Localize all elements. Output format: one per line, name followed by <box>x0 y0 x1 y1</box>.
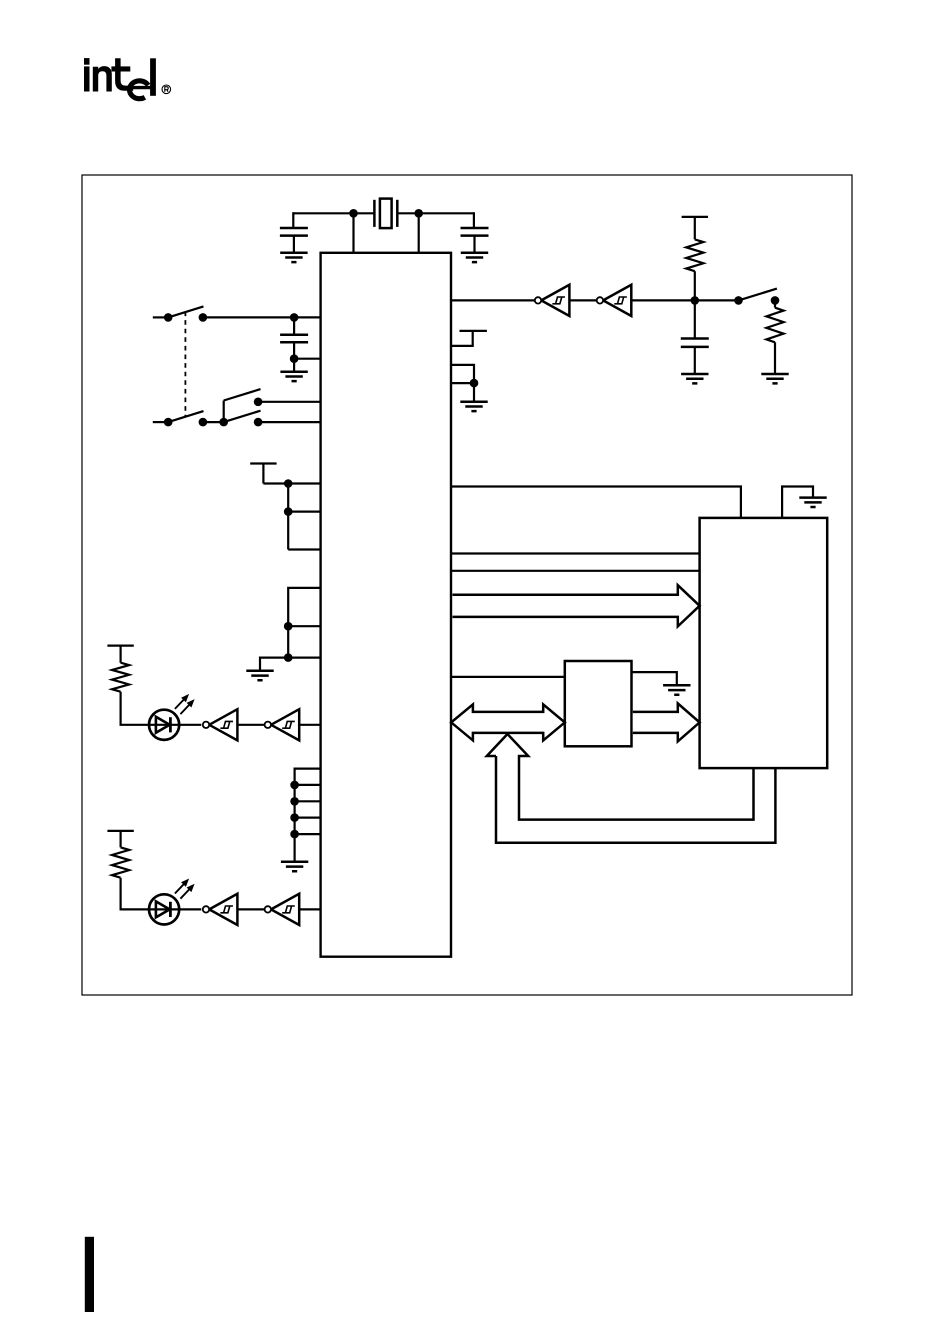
wire port strap top <box>295 769 321 862</box>
data bus arrow U1-U3 <box>451 704 565 740</box>
node S3 common <box>219 418 228 427</box>
gang link S1 dashed <box>184 312 186 417</box>
wire D1 to U5B <box>149 724 201 726</box>
wire C4 lead <box>694 300 696 338</box>
ground C1 <box>280 253 307 262</box>
schmitt inverter U6A <box>271 894 299 925</box>
wire S3 throw A to U1 <box>258 401 321 403</box>
wire strap bottom to U1 <box>288 548 320 550</box>
wire WR line <box>451 570 700 572</box>
wire S1B to S3 <box>203 421 224 423</box>
ground C4 <box>681 374 708 383</box>
wire C3 lead <box>293 317 295 334</box>
crystal Y1 <box>373 200 376 227</box>
wire port pin2 to U1 <box>295 800 321 802</box>
switch S2 arm <box>739 289 777 301</box>
wire U5A to U1 <box>299 724 320 726</box>
resistor R2 <box>766 308 783 343</box>
ground U3 <box>663 685 690 694</box>
wire C2 to ground <box>473 236 475 253</box>
wire D2 to U6B <box>149 908 201 910</box>
switch S1B arm <box>168 411 203 422</box>
node port pin3 <box>290 813 299 822</box>
schmitt inverter U6B <box>209 894 237 925</box>
resistor R4 <box>112 847 129 877</box>
wire XTAL2 right <box>397 212 474 214</box>
wire strap mid to U1 <box>288 511 320 513</box>
wire U4A to node RST <box>631 299 738 301</box>
power VCC U1 <box>460 330 487 332</box>
node S2 common <box>734 296 743 305</box>
wire C1 to ground <box>293 236 295 253</box>
node C3 bottom <box>290 354 299 363</box>
wire gnd strap top <box>288 588 320 658</box>
ground port strap <box>281 862 308 871</box>
schmitt inverter U5B <box>209 709 237 740</box>
wire strap vertical <box>287 484 289 550</box>
wire U6B to U6A <box>237 908 264 910</box>
power VCC R1 <box>682 217 708 240</box>
registered trademark symbol <box>162 85 171 94</box>
wire VSS to ground <box>473 383 475 402</box>
node S3 throw A <box>254 398 263 407</box>
node EA <box>284 479 293 488</box>
node S1B throw <box>199 418 208 427</box>
wire U1 RESET to U4B <box>451 299 535 301</box>
figure border frame <box>82 175 852 995</box>
node XTAL2 <box>414 209 423 218</box>
wire S3 common stub <box>223 401 225 423</box>
wire U6A to U1 <box>299 908 320 910</box>
power VCC R3 <box>107 646 133 663</box>
wire C3 bottom <box>293 342 295 371</box>
capacitor C1 <box>280 228 308 236</box>
node S1A pole <box>164 313 173 322</box>
node port pin2 <box>290 797 299 806</box>
wire C4 to ground <box>694 347 696 374</box>
LED D2 <box>149 894 179 924</box>
wire to ground left <box>260 658 288 671</box>
node C3 top <box>290 313 299 322</box>
wire U1 VSS pin upper <box>451 365 474 383</box>
wire EA pin <box>263 482 320 484</box>
node RST <box>691 296 700 305</box>
schmitt inverter U4B <box>541 285 569 316</box>
ground C3 <box>280 372 307 381</box>
node strap mid <box>284 507 293 516</box>
node gnd strap A <box>284 622 293 631</box>
wire XTAL1 to U1 <box>352 213 354 253</box>
wire XTAL2 to U1 <box>418 213 420 253</box>
schmitt inverter U5A <box>271 709 299 740</box>
wire C3 node to U1 <box>294 358 321 360</box>
wire port pin4 to U1 <box>295 833 321 835</box>
wire U4B to U4A <box>569 299 596 301</box>
wire R2 to ground <box>774 342 776 374</box>
wire R3 to D1 <box>121 692 150 725</box>
wire S1A to U1 <box>203 316 321 318</box>
node S2 throw <box>771 296 780 305</box>
wire U3 gnd lead <box>632 672 677 685</box>
node VSS <box>470 379 479 388</box>
wire gnd strap A to U1 <box>288 625 320 627</box>
wire ALE to U2 <box>451 487 741 518</box>
data bus arrow U3-U2 <box>633 703 700 741</box>
intel logo <box>84 58 156 99</box>
microcontroller U1 <box>321 253 451 957</box>
wire R1 lead <box>694 271 696 300</box>
ground U1 VSS <box>460 402 487 411</box>
address bus arrow <box>453 585 700 626</box>
switch S1A arm <box>168 306 203 317</box>
ground strap <box>246 671 273 680</box>
capacitor C4 <box>681 339 709 347</box>
power VCC R4 <box>107 831 133 848</box>
switch S3 arm upper <box>224 389 261 400</box>
node gnd strap B <box>284 653 293 662</box>
ground C2 <box>461 253 488 262</box>
switch S3 arm lower <box>224 411 261 422</box>
wire U5B to U5A <box>237 724 264 726</box>
resistor R3 <box>112 663 129 692</box>
node port pin1 <box>290 781 299 790</box>
wire RD line <box>451 552 700 554</box>
node S1A throw <box>199 313 208 322</box>
resistor R1 <box>686 239 703 271</box>
wire C1 lead <box>292 212 294 228</box>
wire U2 gnd stub <box>782 487 813 518</box>
wire R2 lead top <box>774 300 776 307</box>
schmitt inverter U4A <box>603 285 631 316</box>
power VCC EA <box>250 464 276 484</box>
capacitor C3 <box>280 335 308 343</box>
wire port pin3 to U1 <box>295 816 321 818</box>
wire C2 lead <box>473 212 475 228</box>
ground R2 <box>761 374 788 383</box>
LED D1 <box>149 710 179 740</box>
peripheral U2 <box>700 518 828 768</box>
wire U1 VSS pin lower <box>451 382 474 384</box>
wire S1A lead <box>153 316 168 318</box>
wire port pin1 to U1 <box>295 784 321 786</box>
wire latch enable <box>451 676 565 678</box>
wire U1 VCC pin <box>451 331 473 346</box>
node port pin4 <box>290 830 299 839</box>
ground U2 <box>799 498 826 507</box>
wire XTAL1 left <box>293 212 374 214</box>
footer sidebar bar <box>85 1237 94 1312</box>
wire gnd strap B to U1 <box>288 656 320 658</box>
wire S1B lead <box>153 421 168 423</box>
wire R4 to D2 <box>121 878 150 910</box>
latch U3 <box>565 661 632 746</box>
node S3 throw B <box>254 418 263 427</box>
node XTAL1 <box>349 209 358 218</box>
capacitor C2 <box>461 228 489 236</box>
wire S3 throw B to U1 <box>258 421 321 423</box>
bus loop arrow U2 to data bus <box>487 734 754 820</box>
node S1B pole <box>164 418 173 427</box>
